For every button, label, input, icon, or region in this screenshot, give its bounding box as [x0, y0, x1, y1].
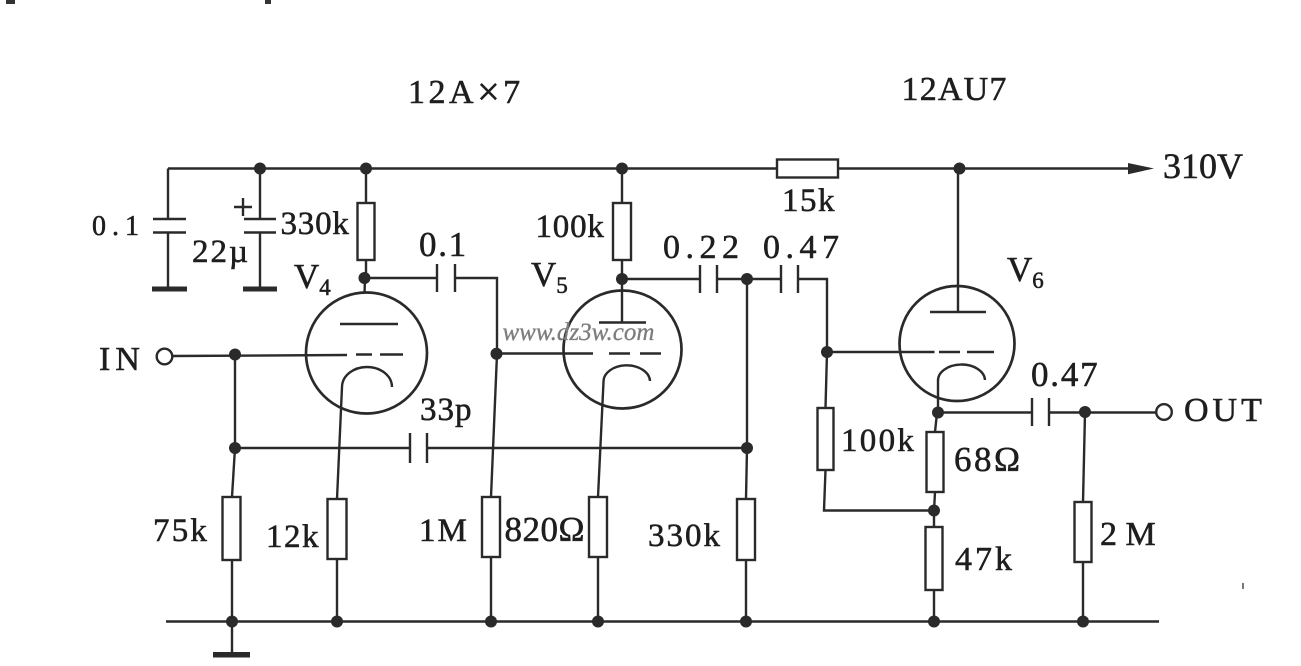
- scan artifact top left: [6, 0, 15, 4]
- wire 820 bottom: [597, 557, 599, 622]
- node ground rail 75k: [226, 616, 238, 628]
- svg-text:2M: 2M: [1100, 516, 1164, 553]
- node 0.22/0.47 junction: [741, 273, 753, 285]
- tube V4 cathode hook: [342, 367, 392, 387]
- wire 100k bottom lead: [621, 260, 623, 279]
- node V4 plate: [359, 272, 371, 284]
- tube V5 grid dashes: [609, 352, 661, 354]
- svg-text:0.47: 0.47: [1031, 355, 1099, 394]
- node ground rail 820: [592, 616, 604, 628]
- node ground rail 1M: [485, 616, 497, 628]
- resistor R 2M: [1075, 502, 1092, 562]
- capacitor C 0.1 coupling: [437, 264, 455, 292]
- svg-text:0.22: 0.22: [663, 229, 745, 266]
- wire V5 plate lead: [621, 279, 623, 291]
- resistor R 75k: [223, 497, 241, 560]
- wire V5 grid: [497, 352, 593, 354]
- tube V4 envelope: [306, 293, 427, 414]
- svg-text:OUT: OUT: [1184, 392, 1266, 429]
- wire top rail right segment: [838, 167, 1129, 169]
- scan artifact right: [1242, 583, 1244, 589]
- wire 330k bottom lead: [365, 260, 367, 278]
- resistor R 100k (grid V6): [818, 408, 834, 470]
- node output junction: [1079, 406, 1091, 418]
- wire 33p line right: [427, 447, 747, 449]
- node 68/47 junction: [928, 505, 940, 517]
- wire cathode to output cap: [938, 411, 1032, 413]
- node 33p left: [229, 442, 241, 454]
- wire node down to 330k bottom: [746, 279, 748, 448]
- wire 75k bottom: [231, 560, 233, 622]
- wire V5 plate to 0.22: [622, 278, 700, 280]
- resistor R 330k (plate V4): [358, 203, 375, 260]
- svg-text:330k: 330k: [648, 518, 722, 554]
- svg-text:15k: 15k: [782, 183, 836, 219]
- wire 0.22 to node: [717, 278, 781, 280]
- node OUT terminal: [1156, 404, 1172, 420]
- wire grid node down to 1M: [491, 354, 497, 497]
- ground lead: [231, 622, 233, 654]
- node 33p right: [741, 442, 753, 454]
- node IN terminal: [157, 349, 173, 365]
- svg-text:12k: 12k: [266, 519, 320, 555]
- wire 100k top lead from rail: [621, 169, 623, 204]
- tube V5 envelope: [564, 291, 682, 409]
- svg-text:22µ: 22µ: [192, 234, 250, 270]
- svg-text:0.47: 0.47: [763, 229, 845, 266]
- wire 1M bottom: [490, 557, 492, 622]
- wire IN to V4 grid: [173, 355, 348, 356]
- resistor R 47k: [926, 527, 943, 590]
- wire 330k bottom top lead: [746, 448, 747, 499]
- wire OUT node down to 2M: [1083, 413, 1085, 503]
- node ground rail 12k: [331, 616, 343, 628]
- wire V4 cathode lead: [337, 387, 342, 499]
- ground bar under 0.1: [152, 287, 187, 292]
- tube V5 plate bar: [599, 321, 646, 323]
- wire 0.47 to V6 grid node: [798, 279, 827, 352]
- wire plate node to coupling cap: [366, 277, 437, 279]
- resistor R 100k (plate V5): [613, 203, 631, 260]
- wire down to 75k: [232, 448, 235, 497]
- wire 100k to cathode junction: [824, 470, 934, 511]
- resistor R 68 ohm: [927, 432, 944, 492]
- svg-text:www.dz3w.com: www.dz3w.com: [503, 319, 655, 346]
- wire V6 grid: [827, 351, 935, 353]
- tube V5 cathode hook: [603, 365, 650, 382]
- wire V4 plate lead: [363, 278, 366, 294]
- tube V5 plate internal lead: [621, 291, 623, 323]
- tube V6 plate bar: [930, 311, 986, 313]
- svg-text:100k: 100k: [841, 423, 916, 459]
- wire V5 cathode lead: [598, 382, 604, 497]
- wire 12k bottom: [336, 559, 338, 622]
- resistor R 330k (grid leak): [737, 499, 755, 560]
- svg-text:1M: 1M: [419, 513, 469, 549]
- wire grid node down to 100k: [826, 352, 828, 408]
- wire 68 bottom to junction: [934, 492, 935, 511]
- wire V6 plate lead from rail: [957, 169, 959, 289]
- capacitor C 0.47 output: [1032, 398, 1049, 426]
- node 310V arrow: [1128, 163, 1154, 174]
- wire below 22u cap: [259, 233, 261, 289]
- tube V6 grid dashes: [939, 351, 994, 353]
- wire left branch down from rail: [167, 169, 169, 220]
- wire 22u branch from rail: [259, 169, 261, 220]
- svg-text:0.1: 0.1: [419, 225, 468, 264]
- svg-text:68Ω: 68Ω: [954, 440, 1023, 479]
- wire 33p line left: [235, 447, 410, 449]
- resistor R 820 ohm: [589, 497, 607, 557]
- capacitor C 0.22: [700, 265, 717, 293]
- capacitor C 0.1 bypass: [153, 219, 186, 233]
- svg-text:0.1: 0.1: [92, 211, 145, 242]
- tube V4 plate bar: [340, 323, 398, 325]
- capacitor C 33p: [410, 433, 427, 463]
- tube V6 cathode hook: [938, 365, 985, 381]
- node rail at V6: [954, 163, 966, 175]
- capacitor C 22u electrolytic: [234, 198, 276, 233]
- svg-text:33p: 33p: [420, 392, 473, 428]
- node V5 plate: [616, 273, 628, 285]
- ground bar: [213, 652, 250, 658]
- node ground rail 2M: [1077, 616, 1089, 628]
- svg-text:100k: 100k: [536, 209, 605, 245]
- node ground rail 47k: [928, 616, 940, 628]
- node rail at 330k: [360, 163, 372, 175]
- node V6 cathode: [932, 407, 944, 419]
- wire coupling cap to V5 grid node: [455, 278, 497, 354]
- svg-text:12A×7: 12A×7: [408, 69, 524, 114]
- wire V6 cathode lead: [937, 381, 939, 413]
- ground bar under 22u: [243, 287, 277, 292]
- wire 47k bottom: [933, 590, 935, 622]
- wire below 0.1 cap: [167, 233, 169, 289]
- node rail at 100k: [616, 163, 628, 175]
- wire output cap to OUT: [1049, 411, 1156, 413]
- scan artifact top middle: [265, 0, 271, 4]
- wire IN node down: [234, 355, 236, 448]
- svg-text:IN: IN: [99, 341, 145, 378]
- wire junction to 47k: [933, 511, 935, 527]
- tube V4 grid dashes: [356, 353, 403, 355]
- wire bottom rail: [166, 620, 1159, 622]
- tube V6 envelope: [900, 286, 1015, 401]
- wire 2M bottom: [1082, 562, 1084, 622]
- svg-text:12AU7: 12AU7: [902, 71, 1008, 108]
- wire 68 ohm top lead: [935, 413, 937, 432]
- svg-text:820Ω: 820Ω: [505, 510, 586, 549]
- svg-text:330k: 330k: [281, 206, 350, 242]
- node V5 grid: [491, 348, 503, 360]
- resistor R 15k (series in rail): [777, 160, 838, 178]
- svg-text:75k: 75k: [153, 513, 209, 549]
- node rail at 22u: [254, 163, 266, 175]
- tube V6 plate internal lead: [957, 288, 959, 312]
- svg-text:47k: 47k: [955, 541, 1015, 578]
- wire 330k bottom lead: [745, 560, 747, 622]
- node IN junction: [229, 349, 241, 361]
- node V6 grid: [821, 346, 833, 358]
- wire 330k top lead: [365, 169, 367, 204]
- wire top rail left segment: [168, 167, 777, 169]
- capacitor C 0.47 interstage: [781, 265, 798, 293]
- resistor R 1M: [482, 497, 500, 557]
- resistor R 12k: [328, 499, 347, 559]
- svg-text:310V: 310V: [1163, 146, 1243, 186]
- node ground rail 330k: [740, 616, 752, 628]
